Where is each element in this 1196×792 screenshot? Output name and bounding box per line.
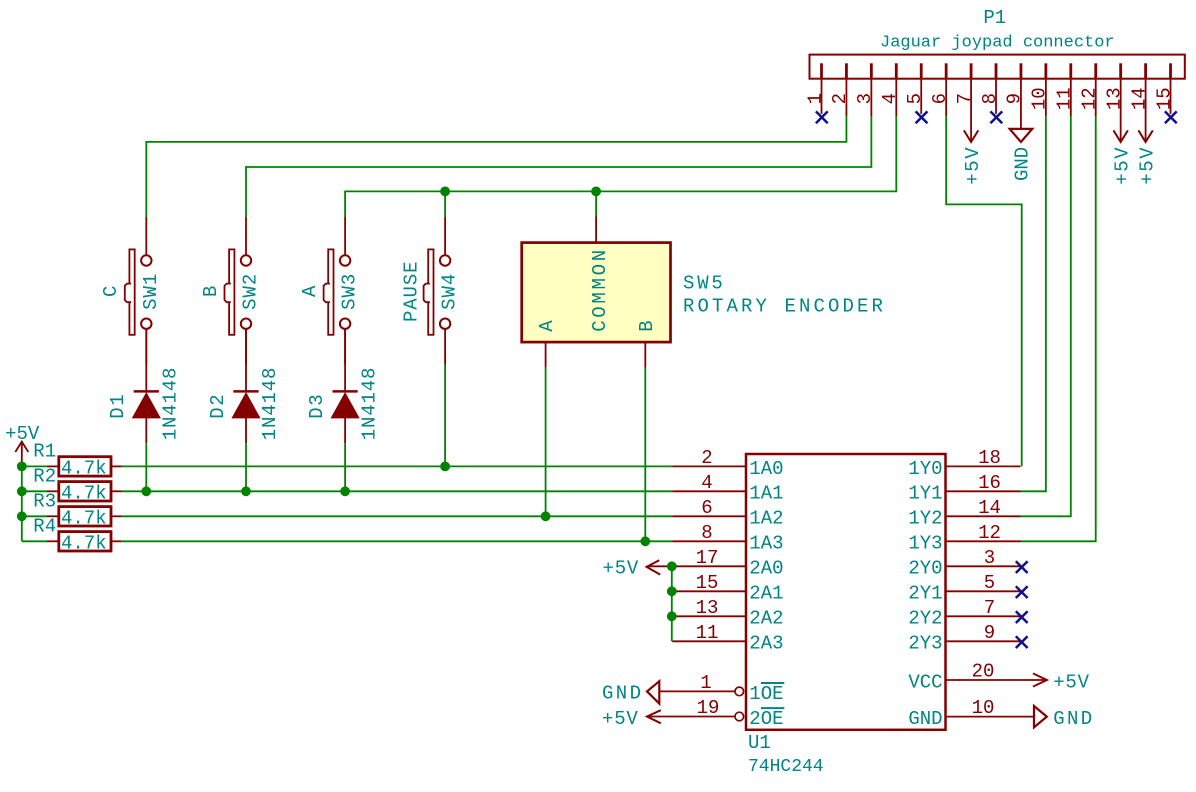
svg-text:+5V: +5V bbox=[602, 708, 639, 730]
svg-text:4: 4 bbox=[701, 472, 712, 494]
svg-text:2Y2: 2Y2 bbox=[908, 608, 942, 630]
svg-text:1A0: 1A0 bbox=[749, 458, 783, 480]
no-connect X on pin 5 bbox=[916, 111, 928, 123]
svg-text:GND: GND bbox=[1053, 708, 1094, 730]
no-connect X on pin 1 bbox=[816, 111, 828, 123]
junction COMMON on row A bbox=[591, 187, 601, 197]
svg-text:PAUSE: PAUSE bbox=[400, 261, 422, 323]
wire pin6 to U1 1Y0 bbox=[946, 116, 1022, 466]
connector P1 pin 9 stub bbox=[1020, 63, 1023, 78]
no-connect X on pin 15 bbox=[1165, 111, 1177, 123]
wire SW4 top to row A bbox=[444, 191, 446, 217]
svg-text:R4: R4 bbox=[33, 516, 56, 538]
svg-text:1OE: 1OE bbox=[749, 683, 783, 705]
svg-text:8: 8 bbox=[979, 93, 1001, 104]
junction SW4 top on row A bbox=[440, 187, 450, 197]
wire +5V rail to R1 bbox=[22, 465, 47, 467]
svg-text:1A3: 1A3 bbox=[749, 533, 783, 555]
U1 pin 9 (2Y3) stub bbox=[946, 640, 1021, 642]
wire pin3 to SW2 (row B) bbox=[246, 116, 871, 217]
junction SW4 bottom on row 1A0 bbox=[440, 462, 450, 472]
wire encoder B to row 1A3 bbox=[644, 368, 646, 542]
svg-text:COMMON: COMMON bbox=[589, 247, 611, 332]
wire pin11 to U1 1Y2 bbox=[1021, 116, 1071, 516]
wire D1 to row 1A1 bbox=[145, 443, 147, 491]
connector P1 pin 11 stub bbox=[1069, 63, 1072, 78]
wire row 1A3 from R4 to U1 bbox=[122, 540, 672, 542]
svg-text:SW3: SW3 bbox=[339, 273, 361, 310]
svg-text:11: 11 bbox=[696, 622, 719, 644]
svg-text:8: 8 bbox=[701, 522, 712, 544]
no-connect X on U1 pin 9 (2Y3) bbox=[1016, 636, 1028, 648]
U1 pin 2 (1A0) stub bbox=[672, 465, 746, 467]
svg-text:1: 1 bbox=[804, 93, 826, 104]
svg-text:6: 6 bbox=[929, 93, 951, 104]
connector P1 pin 12 stub bbox=[1094, 63, 1097, 78]
wire +5V rail to R4 bbox=[22, 540, 47, 542]
GND power symbol on U1 pin 10 bbox=[1034, 706, 1047, 727]
U1 pin 13 (2A2) stub bbox=[672, 615, 746, 617]
U1 pin 1 (1OE) stub with bubble bbox=[659, 690, 735, 692]
svg-text:4: 4 bbox=[879, 93, 901, 104]
svg-text:3: 3 bbox=[854, 93, 876, 104]
svg-text:19: 19 bbox=[697, 697, 720, 719]
svg-text:B: B bbox=[200, 286, 222, 297]
connector P1 pin 5 stub bbox=[920, 63, 923, 78]
svg-text:2OE: 2OE bbox=[749, 708, 783, 730]
U1 pin 7 (2Y2) stub bbox=[946, 615, 1021, 617]
svg-text:SW2: SW2 bbox=[240, 273, 262, 310]
svg-text:74HC244: 74HC244 bbox=[748, 757, 824, 777]
connector P1 pin 1 stub bbox=[820, 63, 823, 78]
svg-text:7: 7 bbox=[984, 597, 995, 619]
U1 pin 20 (VCC) stub bbox=[946, 679, 1047, 681]
connector P1 outline bbox=[810, 55, 1185, 79]
+5V power symbol on U1 pin 20 bbox=[1033, 673, 1047, 686]
svg-text:+5V: +5V bbox=[603, 558, 640, 580]
svg-text:13: 13 bbox=[696, 597, 719, 619]
svg-text:1N4148: 1N4148 bbox=[160, 367, 182, 441]
no-connect X on U1 pin 7 (2Y2) bbox=[1016, 611, 1028, 623]
U1 pin 8 (1A3) stub bbox=[672, 540, 746, 542]
U1 pin 15 (2A1) stub bbox=[672, 590, 746, 592]
svg-text:1Y1: 1Y1 bbox=[908, 483, 942, 505]
svg-text:SW5: SW5 bbox=[683, 273, 726, 295]
svg-text:+5V: +5V bbox=[1111, 146, 1133, 185]
no-connect X on pin 8 bbox=[990, 111, 1002, 123]
diode D3 1N4148 bbox=[332, 329, 359, 443]
svg-text:1A1: 1A1 bbox=[749, 483, 783, 505]
resistor R1 4.7k bbox=[47, 457, 122, 476]
svg-text:1Y0: 1Y0 bbox=[908, 458, 942, 480]
svg-text:14: 14 bbox=[978, 497, 1001, 519]
svg-text:10: 10 bbox=[1029, 87, 1051, 110]
connector P1 pin 13 stub bbox=[1119, 63, 1122, 78]
svg-text:2Y0: 2Y0 bbox=[908, 558, 942, 580]
svg-text:2Y3: 2Y3 bbox=[908, 633, 942, 655]
connector P1 pin 10 stub bbox=[1044, 63, 1047, 78]
+5V power symbol on pin 7 bbox=[964, 130, 978, 142]
connector P1 pin 3 stub bbox=[870, 63, 873, 78]
svg-text:D3: D3 bbox=[306, 393, 328, 419]
+5V power symbol on pin 13 bbox=[1113, 130, 1127, 142]
buffer IC U1 body bbox=[746, 454, 946, 730]
svg-text:R2: R2 bbox=[33, 466, 56, 488]
svg-text:VCC: VCC bbox=[908, 671, 942, 693]
wire SW4 bottom to row 1A0 bbox=[444, 365, 446, 467]
U1 pin 17 (2A0) stub bbox=[672, 565, 746, 567]
svg-text:1N4148: 1N4148 bbox=[259, 367, 281, 441]
wire encoder A to row 1A2 bbox=[545, 368, 547, 517]
svg-text:1N4148: 1N4148 bbox=[358, 367, 380, 441]
rotary encoder B pin bbox=[644, 342, 646, 368]
connector P1 pin 15 stub bbox=[1169, 63, 1172, 78]
svg-text:B: B bbox=[636, 320, 658, 331]
svg-text:SW4: SW4 bbox=[439, 273, 461, 310]
svg-text:2Y1: 2Y1 bbox=[908, 583, 942, 605]
resistor R3 4.7k bbox=[47, 507, 122, 526]
U1 pin 12 (1Y3) stub bbox=[946, 540, 1021, 542]
junction 2A1 feed bbox=[667, 586, 677, 596]
svg-text:SW1: SW1 bbox=[140, 273, 162, 310]
svg-text:10: 10 bbox=[972, 697, 995, 719]
svg-text:11: 11 bbox=[1054, 87, 1076, 110]
svg-text:Jaguar joypad connector: Jaguar joypad connector bbox=[880, 34, 1115, 53]
wire row 1A0 from R1 to U1 bbox=[122, 465, 672, 467]
svg-text:P1: P1 bbox=[983, 7, 1006, 29]
svg-text:2: 2 bbox=[701, 447, 712, 469]
svg-text:2: 2 bbox=[829, 93, 851, 104]
junction 2A2 feed bbox=[667, 611, 677, 621]
junction encoder A on row 1A2 bbox=[541, 511, 551, 521]
junction D2 on row 1A1 bbox=[241, 486, 251, 496]
svg-text:15: 15 bbox=[696, 572, 719, 594]
diode D2 1N4148 bbox=[233, 329, 260, 443]
connector P1 pin 6 stub bbox=[945, 63, 948, 78]
U1 pin 11 (2A3) stub bbox=[672, 640, 746, 642]
svg-text:7: 7 bbox=[954, 93, 976, 104]
junction D1 on row 1A1 bbox=[141, 486, 151, 496]
svg-text:GND: GND bbox=[908, 708, 942, 730]
rotary encoder A pin bbox=[545, 342, 547, 368]
wire pin12 to U1 1Y3 bbox=[1021, 116, 1096, 541]
svg-text:20: 20 bbox=[972, 661, 995, 683]
connector P1 pin 2 stub bbox=[845, 63, 848, 78]
wire pin4 to SW3/SW4/COMMON (row A) bbox=[345, 116, 896, 217]
svg-text:2A2: 2A2 bbox=[749, 608, 783, 630]
connector P1 pin 8 stub bbox=[995, 63, 998, 78]
svg-text:9: 9 bbox=[984, 622, 995, 644]
wire pin10 to U1 1Y1 bbox=[1021, 116, 1046, 491]
wire +5V rail to R2 bbox=[22, 490, 47, 492]
switch SW1 push button bbox=[125, 217, 152, 365]
svg-text:18: 18 bbox=[978, 447, 1001, 469]
svg-text:+5V: +5V bbox=[1136, 146, 1158, 185]
+5V power symbol at U1 2A inputs bbox=[647, 560, 661, 574]
svg-text:ROTARY ENCODER: ROTARY ENCODER bbox=[683, 296, 886, 318]
GND power symbol on pin 9 bbox=[1010, 129, 1033, 142]
junction +5V rail row R3 bbox=[17, 511, 27, 521]
U1 pin 10 (GND) stub bbox=[946, 716, 1035, 718]
+5V power symbol on pin 14 bbox=[1138, 130, 1152, 142]
connector P1 pin 7 stub bbox=[970, 63, 973, 78]
svg-text:4.7k: 4.7k bbox=[61, 483, 107, 505]
wire +5V to 2A0 bbox=[647, 565, 673, 567]
svg-text:C: C bbox=[100, 286, 122, 297]
diode D1 1N4148 bbox=[133, 329, 160, 443]
svg-text:12: 12 bbox=[978, 522, 1001, 544]
svg-text:2A3: 2A3 bbox=[749, 633, 783, 655]
svg-text:R3: R3 bbox=[33, 491, 56, 513]
+5V power symbol on U1 pin 19 bbox=[647, 710, 661, 723]
svg-text:12: 12 bbox=[1079, 87, 1101, 110]
svg-text:17: 17 bbox=[696, 547, 719, 569]
U1 pin 5 (2Y1) stub bbox=[946, 590, 1021, 592]
U1 pin 6 (1A2) stub bbox=[672, 515, 746, 517]
svg-text:+5V: +5V bbox=[1053, 671, 1090, 693]
U1 pin 4 (1A1) stub bbox=[672, 490, 746, 492]
svg-text:D1: D1 bbox=[107, 393, 129, 419]
svg-text:14: 14 bbox=[1128, 87, 1150, 110]
svg-text:4.7k: 4.7k bbox=[61, 533, 107, 555]
GND power symbol on U1 pin 1 bbox=[647, 681, 659, 703]
svg-text:13: 13 bbox=[1103, 87, 1125, 110]
resistor R2 4.7k bbox=[47, 482, 122, 501]
svg-text:A: A bbox=[299, 285, 321, 297]
rotary encoder COMMON pin bbox=[595, 217, 597, 243]
svg-text:GND: GND bbox=[602, 683, 643, 705]
svg-text:U1: U1 bbox=[748, 732, 771, 754]
junction encoder B on row 1A3 bbox=[640, 536, 650, 546]
U1 pin 19 (2OE) stub with bubble bbox=[647, 716, 735, 718]
svg-text:A: A bbox=[536, 320, 558, 332]
wire D3 to row 1A1 bbox=[344, 443, 346, 491]
junction +5V rail row R1 bbox=[17, 462, 27, 472]
svg-text:+5V: +5V bbox=[962, 146, 984, 185]
svg-text:9: 9 bbox=[1004, 93, 1026, 104]
U1 pin 16 (1Y1) stub bbox=[946, 490, 1021, 492]
svg-text:R1: R1 bbox=[33, 441, 56, 463]
svg-text:GND: GND bbox=[1012, 147, 1034, 181]
no-connect X on U1 pin 3 (2Y0) bbox=[1016, 561, 1028, 573]
wire +5V rail to R3 bbox=[22, 515, 47, 517]
connector P1 pin 14 stub bbox=[1144, 63, 1147, 78]
svg-text:2A0: 2A0 bbox=[749, 558, 783, 580]
+5V power symbol top left bbox=[15, 442, 28, 466]
U1 pin 18 (1Y0) stub bbox=[946, 465, 1021, 467]
wire row 1A2 from R3 to U1 bbox=[122, 515, 672, 517]
wire +5V rail vertical bbox=[21, 466, 23, 542]
svg-text:15: 15 bbox=[1153, 87, 1175, 110]
wire 2A feed vertical bbox=[671, 566, 673, 641]
junction 2A0 feed bbox=[667, 561, 677, 571]
no-connect X on U1 pin 5 (2Y1) bbox=[1016, 586, 1028, 598]
svg-text:5: 5 bbox=[904, 93, 926, 104]
svg-text:16: 16 bbox=[978, 472, 1001, 494]
svg-text:2A1: 2A1 bbox=[749, 583, 783, 605]
switch SW4 push button bbox=[424, 217, 451, 365]
svg-text:5: 5 bbox=[984, 572, 995, 594]
U1 pin 3 (2Y0) stub bbox=[946, 565, 1021, 567]
wire D2 to row 1A1 bbox=[245, 443, 247, 491]
junction +5V rail row R2 bbox=[17, 486, 27, 496]
svg-text:1: 1 bbox=[700, 672, 711, 694]
svg-text:6: 6 bbox=[701, 497, 712, 519]
wire pin2 to SW1 (row C) bbox=[146, 116, 846, 217]
junction D3 on row 1A1 bbox=[340, 486, 350, 496]
svg-text:1Y2: 1Y2 bbox=[908, 508, 942, 530]
switch SW2 push button bbox=[225, 217, 252, 365]
U1 pin 14 (1Y2) stub bbox=[946, 515, 1021, 517]
svg-text:1A2: 1A2 bbox=[749, 508, 783, 530]
wire rotary encoder COMMON to row A bbox=[595, 191, 597, 216]
connector P1 pin 4 stub bbox=[895, 63, 898, 78]
rotary encoder SW5 body bbox=[522, 243, 671, 343]
svg-text:3: 3 bbox=[984, 547, 995, 569]
wire row 1A1 from R2 to U1 bbox=[122, 490, 672, 492]
svg-text:D2: D2 bbox=[207, 393, 229, 419]
resistor R4 4.7k bbox=[47, 532, 122, 551]
svg-text:4.7k: 4.7k bbox=[61, 508, 107, 530]
svg-text:4.7k: 4.7k bbox=[61, 458, 107, 480]
switch SW3 push button bbox=[324, 217, 351, 365]
svg-text:1Y3: 1Y3 bbox=[908, 533, 942, 555]
